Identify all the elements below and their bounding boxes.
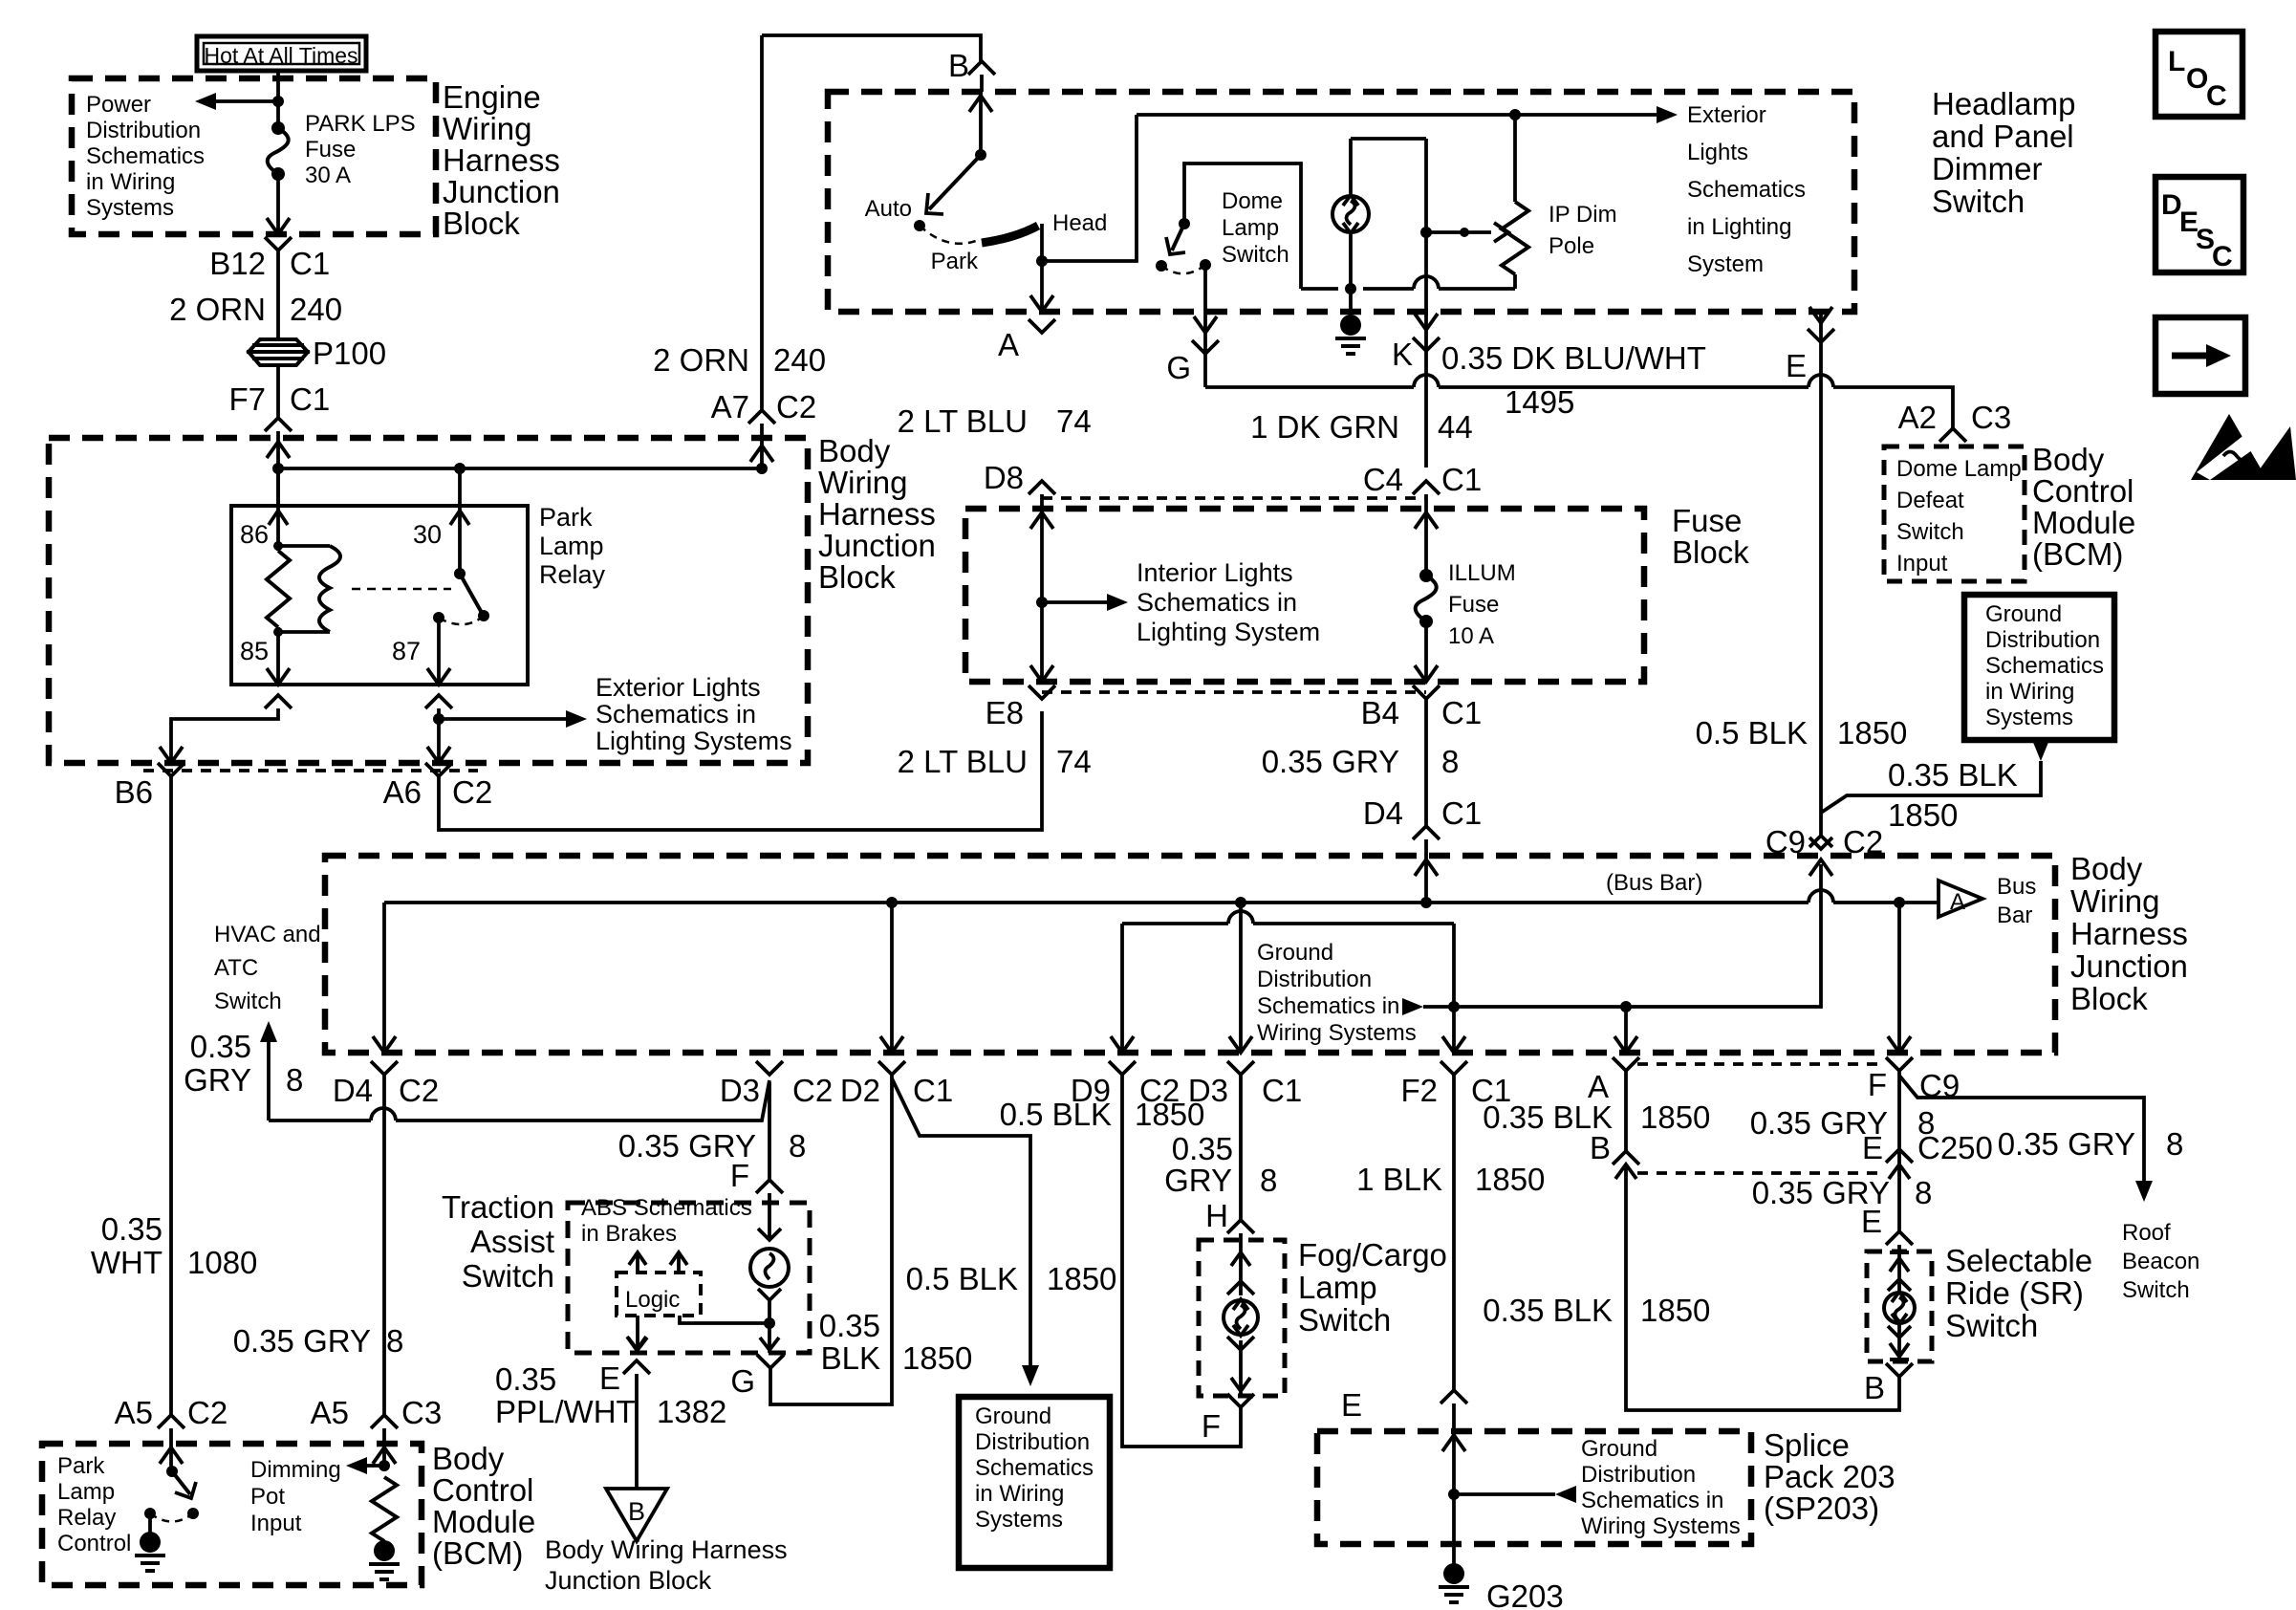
svg-text:(SP203): (SP203) (1764, 1490, 1879, 1526)
svg-text:H: H (1205, 1198, 1228, 1233)
svg-text:Bus: Bus (1997, 874, 2036, 900)
svg-text:85: 85 (240, 637, 269, 665)
svg-text:G: G (1166, 350, 1191, 385)
ground (park lamp relay control) (148, 1513, 152, 1536)
connector D8 (1029, 481, 1055, 494)
node IP wiper (1420, 227, 1432, 238)
exit K arrow (1415, 314, 1438, 330)
svg-text:PARK LPS: PARK LPS (305, 111, 416, 137)
svg-text:0.5 BLK: 0.5 BLK (1696, 715, 1808, 751)
connector D9/C2 (exit) (1109, 1061, 1136, 1075)
connector below relay pin85 (265, 695, 292, 708)
top jog to B (762, 35, 981, 61)
connector F fog (1227, 1394, 1254, 1407)
svg-text:D8: D8 (984, 460, 1024, 495)
arrow to ground distribution (bottom) (1022, 1365, 1039, 1386)
relay coil resistor (273, 541, 283, 551)
svg-text:A: A (998, 327, 1019, 362)
wire D3C1 to H (1239, 1075, 1243, 1220)
arrow to Power Distribution Schematics (212, 99, 278, 103)
svg-text:Pole: Pole (1549, 233, 1594, 259)
internal bus wire (278, 467, 762, 470)
svg-text:C1: C1 (1262, 1073, 1302, 1108)
svg-text:2 ORN: 2 ORN (653, 342, 749, 378)
fog lamp (1224, 1300, 1258, 1335)
svg-text:Relay: Relay (57, 1505, 116, 1531)
wire B4 to D4 (1424, 699, 1428, 826)
wire A to B (1624, 1071, 1628, 1151)
svg-text:0.35: 0.35 (1172, 1131, 1233, 1166)
svg-text:10 A: 10 A (1448, 623, 1494, 649)
node bus F (1894, 897, 1905, 908)
connector A2/C3 (1939, 428, 1966, 442)
svg-text:Defeat: Defeat (1896, 488, 1964, 513)
svg-text:Wiring: Wiring (443, 111, 532, 146)
svg-text:D4: D4 (333, 1073, 373, 1108)
connector A (splice) (1613, 1057, 1639, 1071)
svg-text:0.5 BLK: 0.5 BLK (906, 1261, 1018, 1296)
logic box (617, 1273, 701, 1316)
relay pin 30 (450, 511, 469, 525)
svg-text:0.35 GRY: 0.35 GRY (1262, 744, 1399, 779)
connector G traction (757, 1355, 784, 1368)
node splice (1448, 1489, 1460, 1500)
svg-text:IP Dim: IP Dim (1549, 202, 1617, 228)
selectable ride switch box (1867, 1251, 1932, 1361)
node bus D3 (1235, 897, 1246, 908)
wire ILLUM to B4 (1424, 621, 1428, 682)
svg-text:8: 8 (1260, 1163, 1277, 1198)
relay switch (458, 506, 462, 574)
thin connector row C250 (1637, 1171, 1886, 1175)
svg-text:1 DK GRN: 1 DK GRN (1250, 409, 1399, 445)
fuse block box (965, 509, 1644, 682)
svg-text:E8: E8 (986, 695, 1024, 730)
connector D3/C2 (exit) (756, 1061, 783, 1075)
dome lamp switch contact upper (1179, 218, 1190, 229)
svg-text:1850: 1850 (1135, 1097, 1204, 1132)
wire Head to dome loop riser (1042, 115, 1137, 261)
svg-text:P100: P100 (313, 336, 386, 371)
svg-text:A5: A5 (115, 1395, 153, 1430)
SR lamp chevron bottom (1888, 1326, 1911, 1338)
svg-text:Wiring: Wiring (818, 465, 908, 500)
headlamp switch wiper (975, 149, 986, 161)
wire A7 riser to top (760, 35, 764, 410)
wire D9 to fog lamp F (1122, 1075, 1241, 1447)
svg-text:Ground: Ground (1581, 1436, 1657, 1462)
svg-text:Block: Block (443, 206, 520, 241)
arrow Interior Lights (1042, 600, 1111, 604)
svg-text:Systems: Systems (1985, 705, 2073, 730)
panel lamp (1332, 196, 1369, 232)
svg-text:240: 240 (773, 342, 826, 378)
svg-text:1850: 1850 (1837, 715, 1907, 751)
wire F2 drop (1452, 924, 1456, 1053)
svg-text:8: 8 (789, 1128, 806, 1164)
wire K down (1424, 139, 1428, 468)
node pin87 branch (433, 713, 444, 725)
svg-text:G: G (730, 1363, 755, 1399)
svg-text:Module: Module (2032, 505, 2135, 540)
svg-text:8: 8 (1441, 744, 1459, 779)
wire E into SR box (1897, 1245, 1901, 1292)
svg-text:Switch: Switch (462, 1258, 554, 1294)
svg-text:0.35: 0.35 (101, 1211, 162, 1247)
wire top distribution (1137, 113, 1660, 117)
svg-text:Wiring Systems: Wiring Systems (1257, 1020, 1417, 1046)
svg-text:30: 30 (413, 520, 442, 549)
connector D3/C1 (exit) (1227, 1061, 1254, 1075)
svg-text:Switch: Switch (1896, 519, 1964, 545)
dome lamp switch contacts (1156, 260, 1167, 272)
icon ESD symbol (2191, 414, 2267, 480)
SR lamp (1884, 1293, 1915, 1323)
wire A5/C3 into BCM (382, 1428, 386, 1466)
svg-text:Body Wiring Harness: Body Wiring Harness (545, 1535, 788, 1564)
svg-text:C1: C1 (290, 246, 330, 281)
junction node power feed (272, 96, 284, 107)
svg-text:0.5 BLK: 0.5 BLK (1000, 1097, 1112, 1132)
wire B into switch (980, 75, 984, 92)
svg-text:Switch: Switch (2122, 1277, 2190, 1303)
svg-text:Head: Head (1052, 210, 1107, 236)
arrow Exterior Lights (headlamp box) (1657, 106, 1678, 123)
dome lamp defeat switch input box (1884, 446, 2025, 581)
svg-text:B: B (1590, 1130, 1611, 1165)
svg-text:0.35: 0.35 (190, 1029, 251, 1064)
connector C4/C1 (1413, 481, 1440, 494)
connector H (1227, 1220, 1254, 1233)
svg-text:Lighting Systems: Lighting Systems (596, 727, 792, 755)
dimming pot resistor (372, 1477, 397, 1541)
wire G to D2 link (770, 1075, 892, 1404)
connector A5/C3 (371, 1415, 398, 1428)
traction ABS box (568, 1203, 810, 1353)
connector F/C9 (exit) (1886, 1057, 1913, 1071)
selector thick blade to Head (982, 226, 1038, 243)
wire fuse to box exit (276, 174, 280, 234)
svg-text:ATC: ATC (214, 955, 258, 981)
svg-text:A7: A7 (711, 389, 749, 424)
svg-text:Assist: Assist (470, 1224, 554, 1259)
exit arrow D8 bottom (1030, 665, 1053, 682)
body wiring harness junction block box (49, 438, 808, 763)
svg-text:87: 87 (392, 637, 421, 665)
svg-text:Switch: Switch (1298, 1302, 1391, 1338)
svg-text:GRY: GRY (184, 1062, 251, 1098)
svg-text:Schematics in: Schematics in (1257, 993, 1399, 1019)
wire P100 to F7 (276, 364, 280, 418)
wire pin85 exit (276, 632, 280, 685)
svg-text:Distribution: Distribution (86, 118, 201, 143)
wire C4 into fuse block (1424, 494, 1428, 576)
connector E splice (1440, 1390, 1467, 1403)
svg-text:D3: D3 (720, 1073, 760, 1108)
node IP dim feed (1509, 109, 1521, 120)
svg-text:1850: 1850 (1640, 1099, 1710, 1135)
svg-text:Control: Control (2032, 473, 2134, 509)
power label box "Hot At All Times" (197, 36, 366, 71)
connector B C250 (1613, 1151, 1639, 1164)
relay coil inductor (278, 544, 330, 548)
svg-text:Wiring: Wiring (2070, 883, 2160, 919)
svg-text:Interior Lights: Interior Lights (1137, 558, 1293, 587)
connector F2/C1 (exit) (1440, 1061, 1467, 1075)
park lamp relay box (231, 506, 528, 685)
svg-text:74: 74 (1056, 744, 1092, 779)
ABS logic arrows (629, 1252, 646, 1265)
svg-text:F2: F2 (1400, 1073, 1438, 1108)
bus bar terminal triangle A (1939, 881, 1982, 917)
svg-text:B: B (628, 1497, 645, 1526)
svg-text:Pack 203: Pack 203 (1764, 1459, 1895, 1494)
arrow ground distribution (center) (1402, 998, 1423, 1015)
svg-text:1850: 1850 (1047, 1261, 1116, 1296)
svg-text:Relay: Relay (539, 560, 606, 589)
icon DESC box (2155, 177, 2243, 272)
wire bus to D3/C1 (1239, 903, 1243, 1053)
node A7 bus (756, 463, 768, 474)
wire F2 to splice E (1452, 1075, 1456, 1390)
svg-text:B: B (1864, 1370, 1885, 1405)
park lamp relay control switch (166, 1466, 178, 1477)
wire D9-F2 tie (1122, 922, 1228, 925)
wire bus to D2/C1 (890, 903, 894, 1053)
svg-text:Schematics in: Schematics in (596, 700, 756, 729)
svg-text:Systems: Systems (86, 195, 174, 221)
connector E traction (623, 1360, 650, 1374)
node dimming pot (379, 1460, 390, 1471)
relay switch throw arc (442, 616, 484, 624)
svg-text:86: 86 (240, 520, 269, 549)
svg-text:Lamp: Lamp (1222, 215, 1279, 241)
svg-text:F: F (1202, 1408, 1221, 1444)
svg-text:in Wiring: in Wiring (86, 169, 175, 195)
connector F7/C1 (265, 418, 292, 431)
fog lamp chevron top (1227, 1281, 1254, 1295)
wire Head contact down (1040, 224, 1044, 312)
svg-text:ILLUM: ILLUM (1448, 560, 1516, 586)
svg-text:Auto: Auto (865, 196, 912, 222)
connector row C2 thin line (143, 769, 478, 772)
svg-text:0.35 GRY: 0.35 GRY (233, 1323, 371, 1359)
svg-text:E: E (1341, 1387, 1362, 1423)
arrow Exterior Lights Schematics (439, 717, 570, 721)
svg-text:Block: Block (1672, 534, 1749, 570)
svg-text:Control: Control (57, 1531, 131, 1556)
svg-text:8: 8 (1915, 1175, 1932, 1210)
svg-text:2 LT BLU: 2 LT BLU (898, 403, 1028, 439)
svg-text:BLK: BLK (821, 1340, 880, 1376)
svg-text:C2: C2 (187, 1395, 227, 1430)
svg-text:B6: B6 (115, 774, 153, 810)
svg-text:30 A: 30 A (305, 163, 351, 188)
svg-text:C4: C4 (1363, 462, 1403, 497)
node F7 bus (272, 463, 284, 474)
fuse block connector row C1 bottom (1042, 690, 1426, 694)
node relay pin30 feed (454, 463, 466, 474)
svg-text:Dimmer: Dimmer (1932, 151, 2042, 186)
svg-text:Fog/Cargo: Fog/Cargo (1298, 1237, 1447, 1273)
connector D4/C1 (1413, 826, 1440, 839)
icon LOC box (2155, 32, 2242, 117)
wire D9 drop (1120, 924, 1124, 1053)
connector B SR (1886, 1363, 1913, 1377)
connector B4/C1 (1413, 685, 1440, 699)
svg-text:0.35 BLK: 0.35 BLK (1483, 1293, 1613, 1328)
wire E exit (1819, 312, 1823, 838)
svg-text:C1: C1 (1441, 795, 1482, 831)
svg-text:1382: 1382 (657, 1394, 726, 1429)
fuse ILLUM 10A (1419, 569, 1433, 582)
ground distribution schematics box (right) (1964, 595, 2114, 740)
wire bus to F/C9 (1897, 903, 1901, 1053)
svg-text:Ground: Ground (1257, 940, 1333, 966)
svg-text:Schematics in: Schematics in (1581, 1488, 1723, 1513)
svg-text:Junction: Junction (443, 174, 560, 209)
wire B to SR B (1626, 1164, 1899, 1410)
svg-text:Park: Park (931, 249, 979, 274)
svg-text:44: 44 (1438, 409, 1473, 445)
connector B (headlamp switch) (968, 61, 995, 75)
svg-text:K: K (1392, 337, 1413, 372)
svg-text:C1: C1 (290, 381, 330, 417)
svg-text:L: L (2168, 46, 2185, 77)
svg-text:Roof: Roof (2122, 1220, 2171, 1246)
svg-text:1495: 1495 (1505, 384, 1574, 420)
svg-text:Block: Block (2070, 981, 2148, 1016)
svg-text:Body: Body (818, 433, 891, 468)
ground (dimming pot) (382, 1541, 386, 1545)
svg-text:1 BLK: 1 BLK (1356, 1162, 1442, 1197)
body wiring harness junction block box (center) (325, 856, 2055, 1053)
svg-text:Harness: Harness (818, 496, 936, 532)
node lamp ground (1345, 283, 1356, 294)
svg-text:HVAC and: HVAC and (214, 922, 321, 947)
node A ground (1620, 1001, 1632, 1012)
connector E8 (1029, 685, 1055, 699)
connector F traction (756, 1180, 783, 1193)
connector D2/C1 (exit) (878, 1061, 905, 1075)
svg-text:Body: Body (2032, 442, 2105, 477)
svg-text:Traction: Traction (442, 1189, 554, 1225)
svg-text:C1: C1 (1441, 462, 1482, 497)
fog/cargo lamp switch box (1199, 1240, 1285, 1396)
svg-text:Dome: Dome (1222, 188, 1283, 214)
svg-text:8: 8 (2166, 1126, 2183, 1162)
ground (headlamp switch) (1340, 315, 1361, 336)
wire G exit (1203, 265, 1207, 387)
thin connector row C9 (1637, 1062, 1886, 1066)
svg-text:Ground: Ground (975, 1403, 1051, 1429)
svg-text:C2: C2 (792, 1073, 833, 1108)
wire lamp top to K (1351, 137, 1426, 141)
svg-text:Lighting System: Lighting System (1137, 618, 1320, 646)
svg-text:8: 8 (386, 1323, 403, 1359)
park lamp relay control arc (150, 1513, 193, 1522)
svg-text:F: F (730, 1158, 749, 1193)
svg-text:B: B (948, 48, 969, 83)
svg-text:A2: A2 (1898, 400, 1937, 435)
bus bar (384, 901, 1809, 904)
svg-text:in Lighting: in Lighting (1687, 214, 1791, 240)
svg-text:B4: B4 (1361, 695, 1399, 730)
svg-text:Power: Power (86, 92, 151, 118)
svg-text:Module: Module (432, 1504, 535, 1539)
svg-text:E: E (1862, 1130, 1883, 1165)
wire SR lamp to B (1897, 1325, 1901, 1360)
icon arrow box (2155, 317, 2245, 394)
svg-text:Input: Input (1896, 551, 1948, 577)
node interior lights branch (1036, 597, 1048, 608)
svg-text:in Brakes: in Brakes (581, 1221, 677, 1247)
wire C9 branch to roof beacon (1899, 1076, 2144, 1185)
svg-text:Control: Control (432, 1472, 533, 1508)
connector A (1029, 319, 1055, 333)
svg-text:Lights: Lights (1687, 140, 1748, 165)
svg-text:C2: C2 (399, 1073, 439, 1108)
svg-text:A6: A6 (383, 774, 422, 810)
svg-text:F7: F7 (228, 381, 266, 417)
wire bus to D4/C2 (382, 903, 386, 1053)
arrow to ground distribution box (2032, 740, 2049, 761)
svg-text:Distribution: Distribution (1985, 627, 2100, 653)
wire pin85 to B6 (171, 708, 278, 763)
svg-text:Systems: Systems (975, 1507, 1063, 1533)
svg-text:and Panel: and Panel (1932, 119, 2074, 154)
svg-text:E: E (599, 1360, 620, 1396)
wire D4 to A5/C3 (382, 1075, 386, 1415)
wire lamp bottom to node (768, 1300, 771, 1353)
svg-text:Input: Input (250, 1511, 302, 1536)
svg-text:C250: C250 (1917, 1130, 1993, 1165)
wire HVAC to D3/C2 (269, 1119, 371, 1122)
svg-text:Splice: Splice (1764, 1427, 1850, 1463)
svg-text:F: F (1868, 1067, 1887, 1102)
connector below relay pin87 (425, 695, 452, 708)
wire from Hot At All Times into engine JB (276, 71, 280, 128)
svg-text:Pot: Pot (250, 1484, 285, 1510)
svg-text:Park: Park (539, 503, 593, 532)
svg-text:0.35: 0.35 (819, 1308, 880, 1343)
svg-text:Switch: Switch (1932, 184, 2025, 219)
svg-text:D4: D4 (1363, 795, 1403, 831)
svg-text:Lamp: Lamp (539, 532, 604, 560)
lamp node to IP pole bottom (1363, 287, 1414, 291)
svg-text:0.35: 0.35 (495, 1361, 556, 1397)
svg-text:Block: Block (818, 559, 896, 595)
svg-text:74: 74 (1056, 403, 1092, 439)
svg-text:Junction Block: Junction Block (545, 1566, 712, 1595)
svg-text:0.35 BLK: 0.35 BLK (1888, 757, 2018, 793)
traction lamp (758, 1229, 781, 1240)
svg-text:WHT: WHT (91, 1245, 162, 1280)
wire A7 into body box (760, 424, 764, 468)
wire to relay pin 30 (458, 468, 462, 506)
wire F into traction box (768, 1193, 771, 1240)
svg-text:Fuse: Fuse (1448, 592, 1499, 618)
arrow to HVAC (260, 1021, 277, 1042)
splice pack box (1317, 1431, 1751, 1544)
wire H into fog box (1239, 1233, 1243, 1295)
svg-text:Switch: Switch (1945, 1308, 2038, 1343)
wire D8 into fuse block (1040, 494, 1044, 682)
wire B12 to P100 (276, 250, 280, 339)
svg-text:Ground: Ground (1985, 601, 2062, 627)
wire C9 ground feed (1423, 864, 1821, 1007)
node bus D4C1 (1420, 897, 1432, 908)
